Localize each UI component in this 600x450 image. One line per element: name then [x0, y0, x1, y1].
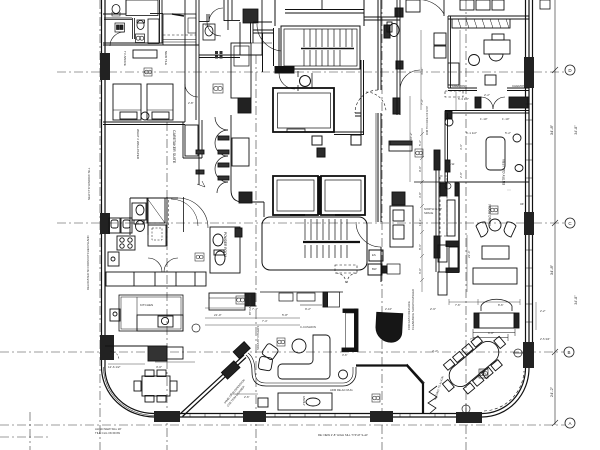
svg-text:4'-11": 4'-11"	[420, 68, 424, 75]
svg-text:5'-8": 5'-8"	[282, 313, 288, 317]
svg-text:1'-10": 1'-10"	[480, 117, 488, 121]
svg-text:34'-8": 34'-8"	[549, 124, 554, 135]
svg-text:2'-2": 2'-2"	[540, 309, 546, 313]
svg-text:ENTRY GALLERY: ENTRY GALLERY	[502, 158, 506, 185]
svg-text:9'-2": 9'-2"	[305, 307, 311, 311]
svg-text:RELOCATED SD FROM KITCHEN ISLA: RELOCATED SD FROM KITCHEN ISLAND	[86, 236, 90, 291]
svg-text:KITCHEN: KITCHEN	[140, 303, 153, 307]
svg-text:3'-6": 3'-6"	[342, 353, 348, 357]
svg-text:CARETAKER SUITE: CARETAKER SUITE	[172, 130, 176, 164]
svg-text:2'-8": 2'-8"	[459, 172, 463, 178]
svg-text:CHEMON: CHEMON	[452, 84, 465, 88]
svg-text:7'-6": 7'-6"	[470, 337, 476, 341]
svg-text:5'-3 1/2": 5'-3 1/2"	[458, 97, 469, 101]
svg-text:SPACE: SPACE	[424, 211, 433, 215]
svg-text:2'-2": 2'-2"	[484, 93, 490, 97]
svg-text:NEW TILE: NEW TILE	[164, 51, 168, 65]
svg-text:6'-1 1/2": 6'-1 1/2"	[466, 131, 477, 135]
svg-text:3'-0": 3'-0"	[156, 365, 162, 369]
svg-text:6'-8": 6'-8"	[488, 331, 494, 335]
svg-text:WHAT # WALLPAPER: WHAT # WALLPAPER	[136, 129, 140, 160]
svg-text:24'-2": 24'-2"	[549, 386, 554, 397]
svg-text:2'-6": 2'-6"	[244, 395, 250, 399]
svg-text:5'-2": 5'-2"	[418, 140, 422, 146]
svg-text:2'-10": 2'-10"	[385, 307, 392, 311]
svg-text:11'-2": 11'-2"	[418, 219, 422, 226]
svg-text:9'-0": 9'-0"	[418, 166, 422, 172]
svg-text:ES: ES	[372, 253, 376, 257]
svg-text:CHEMON: CHEMON	[512, 84, 525, 88]
svg-text:TILE CLG ON ROW: TILE CLG ON ROW	[95, 431, 120, 435]
svg-text:34'-8": 34'-8"	[574, 295, 578, 305]
svg-text:7'-2": 7'-2"	[420, 99, 424, 105]
svg-text:5'-2": 5'-2"	[505, 131, 511, 135]
svg-text:B: B	[567, 350, 570, 355]
svg-text:21'-0": 21'-0"	[214, 313, 222, 317]
svg-text:1'-10": 1'-10"	[502, 117, 510, 121]
svg-text:6'-0": 6'-0"	[418, 268, 422, 274]
svg-text:DIM TO FACE OF GYP: DIM TO FACE OF GYP	[425, 106, 429, 135]
svg-text:2'-5 3/4": 2'-5 3/4"	[540, 337, 550, 341]
svg-text:7'-4": 7'-4"	[262, 319, 268, 323]
svg-text:8'-6": 8'-6"	[418, 244, 422, 250]
svg-text:7'-6": 7'-6"	[455, 303, 461, 307]
svg-text:CLEARANCE SHOWN DASHED: CLEARANCE SHOWN DASHED	[411, 289, 415, 330]
svg-text:7'-4": 7'-4"	[252, 307, 258, 311]
svg-text:2'-6": 2'-6"	[430, 307, 436, 311]
svg-text:ADM RE-AC RUG: ADM RE-AC RUG	[330, 388, 353, 392]
svg-text:10'-2": 10'-2"	[409, 132, 413, 140]
svg-text:8'-6": 8'-6"	[498, 303, 504, 307]
svg-text:3'-8": 3'-8"	[418, 192, 422, 198]
svg-text:SOFA BY OTHERS: SOFA BY OTHERS	[256, 326, 260, 350]
svg-text:12'-6 1/2": 12'-6 1/2"	[108, 365, 121, 369]
svg-text:C-CUSHION: C-CUSHION	[300, 325, 316, 329]
svg-text:B.W.: B.W.	[449, 162, 455, 166]
svg-text:2'-2": 2'-2"	[432, 349, 438, 353]
svg-text:34': 34'	[520, 202, 524, 206]
svg-text:34'-8": 34'-8"	[549, 264, 554, 275]
svg-text:RE: NEW 2'-8" HIGH SILL TYP AT: RE: NEW 2'-8" HIGH SILL TYP AT S+W	[318, 433, 368, 437]
svg-text:TV ABOVE: TV ABOVE	[123, 51, 127, 66]
svg-text:NEW FTD WINDOW SILL: NEW FTD WINDOW SILL	[87, 167, 91, 200]
svg-text:A: A	[568, 421, 571, 426]
svg-text:3'-6": 3'-6"	[459, 144, 463, 150]
svg-text:2'-8": 2'-8"	[188, 101, 194, 105]
svg-text:FAMILY: FAMILY	[302, 396, 306, 406]
svg-text:BY CASEWORK: BY CASEWORK	[248, 294, 252, 315]
svg-text:4'-0": 4'-0"	[205, 23, 211, 27]
svg-text:34'-8": 34'-8"	[574, 125, 578, 135]
svg-text:EL: EL	[318, 152, 322, 156]
svg-text:POWDER ROOM: POWDER ROOM	[223, 232, 227, 257]
svg-text:23'-4": 23'-4"	[467, 250, 471, 258]
svg-text::: ::: :: ::	[507, 188, 511, 192]
svg-text:BW: BW	[372, 267, 377, 271]
